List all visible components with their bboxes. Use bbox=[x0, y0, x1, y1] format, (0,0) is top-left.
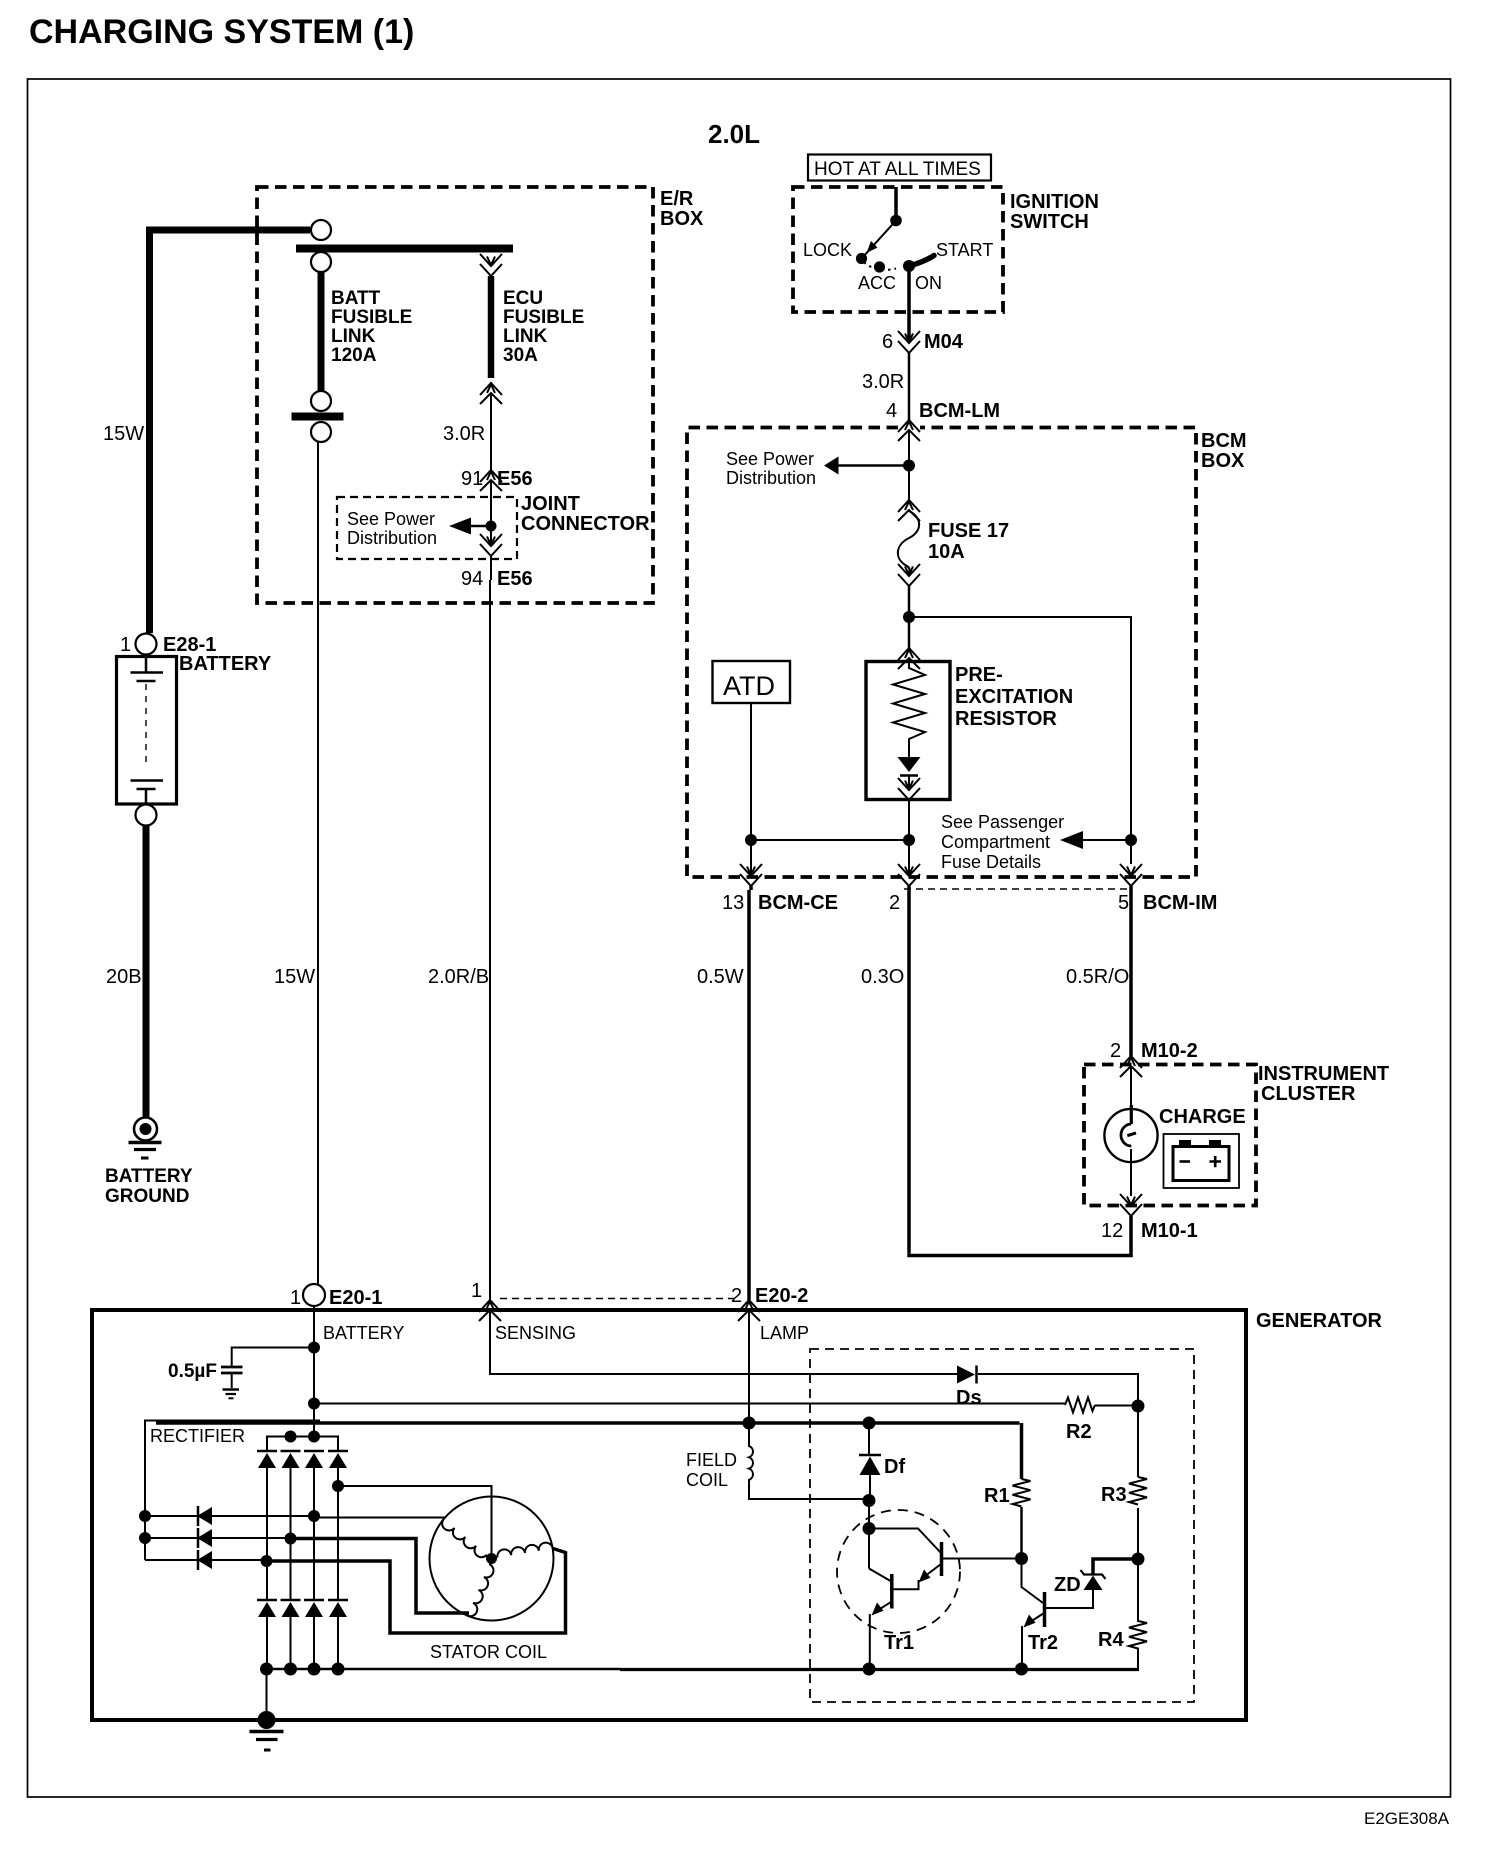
wire: node down to R3 bbox=[1137, 1406, 1139, 1477]
arrow to see power distribution bbox=[824, 457, 839, 475]
wire into charge lamp bbox=[1130, 1066, 1132, 1106]
left exciter diode row 1 bbox=[145, 1515, 314, 1517]
diode negative col2 bbox=[281, 1600, 301, 1617]
svg-text:1: 1 bbox=[290, 1287, 301, 1309]
pre-excitation resistor element bbox=[893, 658, 925, 757]
BATT link lower bus bbox=[292, 413, 344, 421]
svg-text:E56: E56 bbox=[497, 568, 533, 590]
ACC contact dot bbox=[874, 261, 885, 272]
svg-text:E20-2: E20-2 bbox=[755, 1285, 808, 1307]
wire: ZD to Tr2 collector bbox=[1046, 1590, 1093, 1608]
svg-text:15W: 15W bbox=[103, 423, 144, 445]
svg-text:E20-1: E20-1 bbox=[329, 1287, 382, 1309]
connector E56 pin 91 bbox=[480, 470, 502, 491]
svg-text:0.5W: 0.5W bbox=[697, 966, 744, 988]
stator center dot bbox=[486, 1553, 497, 1564]
svg-text:ZD: ZD bbox=[1054, 1574, 1081, 1596]
switch pivot dot bbox=[890, 215, 902, 227]
svg-text:Distribution: Distribution bbox=[726, 468, 816, 488]
battery telltale minus bbox=[1180, 1160, 1191, 1163]
svg-text:M10-1: M10-1 bbox=[1141, 1220, 1198, 1242]
instrument cluster dashed box bbox=[1084, 1065, 1256, 1206]
svg-text:2: 2 bbox=[889, 892, 900, 914]
Tr1 Q2 emitter bbox=[870, 1602, 891, 1669]
diode Ds bbox=[957, 1366, 975, 1384]
dashed connector strip E20-2 bbox=[500, 1298, 740, 1300]
switch blade arrowhead bbox=[867, 241, 878, 253]
junction dot R3/ZD/R4 bbox=[1132, 1553, 1145, 1566]
wire: ATD down to junction bbox=[750, 703, 752, 876]
connector: pre-excitation resistor entry bbox=[898, 648, 920, 669]
regulator dashed box bbox=[810, 1349, 1194, 1702]
capacitor 0.5uF bbox=[221, 1366, 243, 1369]
svg-text:M04: M04 bbox=[924, 331, 964, 353]
svg-text:BOX: BOX bbox=[660, 208, 704, 230]
svg-text:CHARGING SYSTEM (1): CHARGING SYSTEM (1) bbox=[29, 13, 414, 51]
svg-text:BATTERY: BATTERY bbox=[323, 1323, 404, 1343]
junction dot on ATD wire bbox=[745, 834, 757, 846]
svg-text:BOX: BOX bbox=[1201, 450, 1245, 472]
diode positive col2 bbox=[281, 1451, 301, 1468]
zener diode ZD bbox=[1093, 1559, 1138, 1574]
wire: BCM-IM to M10-2 (0.5R/O) bbox=[1129, 886, 1133, 1056]
generator ground dot bbox=[258, 1711, 276, 1729]
junction dot below BCM-LM bbox=[903, 460, 915, 472]
HOT AT ALL TIMES box bbox=[808, 155, 991, 181]
battery ground symbol bbox=[129, 1118, 162, 1159]
svg-text:2: 2 bbox=[731, 1285, 742, 1307]
ON contact dot bbox=[903, 260, 915, 272]
resistor R4 bbox=[1129, 1559, 1147, 1669]
wire: R2 to node bbox=[1095, 1405, 1138, 1407]
svg-text:LAMP: LAMP bbox=[760, 1323, 809, 1343]
wire: M04 to BCM-LM (3.0R) bbox=[908, 353, 911, 420]
dashed travel arc LOCK-ACC-ON bbox=[864, 262, 896, 270]
svg-text:E2GE308A: E2GE308A bbox=[1364, 1809, 1450, 1828]
bus bar terminal ring top bbox=[311, 220, 331, 240]
battery bottom terminal ring bbox=[136, 805, 157, 826]
svg-text:STATOR COIL: STATOR COIL bbox=[430, 1642, 547, 1662]
Tr1 Q1 bar bbox=[940, 1542, 944, 1576]
bus bar terminal ring below bbox=[311, 252, 331, 272]
wire: BCM-CE to LAMP (0.5W) bbox=[749, 886, 751, 1300]
junction dot row1-col3 bbox=[308, 1510, 320, 1522]
svg-text:1: 1 bbox=[471, 1280, 482, 1302]
connector BCM-LM bbox=[898, 420, 920, 441]
battery internal plates bottom bbox=[131, 781, 164, 805]
svg-text:GENERATOR: GENERATOR bbox=[1256, 1310, 1382, 1332]
svg-text:R1: R1 bbox=[984, 1485, 1010, 1507]
svg-text:BCM-LM: BCM-LM bbox=[919, 400, 1000, 422]
wire: ECU link to joint connector (3.0R) bbox=[490, 394, 492, 470]
wire: BCM-LM into BCM bbox=[908, 430, 910, 500]
battery telltale icon frame bbox=[1164, 1134, 1240, 1188]
svg-text:Df: Df bbox=[884, 1456, 905, 1478]
connector: ECU link bottom chevrons bbox=[480, 383, 502, 404]
svg-text:20B: 20B bbox=[106, 966, 142, 988]
stator phase wire to col2 (thick) bbox=[291, 1539, 470, 1614]
connector M04 bbox=[898, 331, 920, 353]
wire col4 bbox=[337, 1468, 339, 1600]
svg-text:BATTERY: BATTERY bbox=[105, 1166, 193, 1187]
svg-text:FIELD: FIELD bbox=[686, 1450, 737, 1470]
junction dot col4 neutral bbox=[332, 1480, 344, 1492]
svg-text:Ds: Ds bbox=[956, 1387, 982, 1409]
diode positive col1 bbox=[257, 1451, 277, 1468]
svg-text:BCM: BCM bbox=[1201, 430, 1247, 452]
E/R box dashed outline bbox=[257, 187, 653, 603]
svg-text:BCM-CE: BCM-CE bbox=[758, 892, 838, 914]
wire: sensing down and right (Ds feed) bbox=[490, 1310, 957, 1374]
svg-text:JOINT: JOINT bbox=[521, 493, 580, 515]
svg-text:12: 12 bbox=[1101, 1220, 1123, 1242]
junction dot col3 top bbox=[308, 1431, 320, 1443]
wire: LAMP down to field rail bbox=[748, 1310, 750, 1423]
svg-text:See Passenger: See Passenger bbox=[941, 812, 1064, 832]
START contact (thick stub) bbox=[909, 256, 934, 267]
wire col2 bbox=[290, 1468, 292, 1600]
fuse 17 clip bottom bbox=[898, 564, 920, 586]
junction dot battery rail bbox=[308, 1398, 320, 1410]
svg-text:FUSIBLE: FUSIBLE bbox=[331, 307, 412, 328]
junction dot field rail / Df bbox=[863, 1494, 876, 1507]
wire: BCM 2 down (0.3O) bbox=[907, 886, 911, 1254]
connector E20-1 (ring) bbox=[303, 1284, 325, 1306]
connector E28-1 (ring) bbox=[136, 634, 157, 655]
Tr1 Q2 bar bbox=[890, 1574, 894, 1609]
wire: M10-1 loop back to 0.3O wire bbox=[907, 1216, 1133, 1256]
wire: rail to generator ground bbox=[266, 1669, 268, 1720]
connector BCM pin 2 bbox=[898, 864, 920, 886]
switch feed stub bbox=[894, 187, 898, 220]
svg-text:3.0R: 3.0R bbox=[443, 423, 485, 445]
bottom rail of generator bbox=[267, 1668, 621, 1671]
wire col3 bbox=[313, 1468, 315, 1600]
connector: pre-excitation resistor exit bbox=[898, 778, 920, 800]
svg-text:ECU: ECU bbox=[503, 288, 543, 309]
svg-text:BATTERY: BATTERY bbox=[179, 653, 272, 675]
diode positive col4 bbox=[328, 1451, 348, 1468]
wire: E20-1 into generator bbox=[313, 1306, 315, 1437]
Tr1 Q1 base wire to node bbox=[943, 1558, 1022, 1560]
connector M10-1 bbox=[1120, 1194, 1142, 1216]
svg-text:BATT: BATT bbox=[331, 288, 381, 309]
battery symbol box bbox=[117, 657, 177, 805]
svg-text:0.5µF: 0.5µF bbox=[168, 1361, 217, 1382]
svg-text:R3: R3 bbox=[1101, 1484, 1127, 1506]
junction dot Tr1 emitter on rail bbox=[863, 1663, 876, 1676]
BATT link lower ring 2 bbox=[311, 422, 331, 442]
svg-text:INSTRUMENT: INSTRUMENT bbox=[1258, 1063, 1389, 1085]
svg-text:2: 2 bbox=[1110, 1040, 1121, 1062]
junction dot on BCM-IM wire bbox=[1125, 834, 1137, 846]
svg-text:RECTIFIER: RECTIFIER bbox=[150, 1426, 245, 1446]
Tr1 Q1 collector link bbox=[869, 1529, 941, 1554]
junction dot below resistor bbox=[903, 834, 915, 846]
junction dot Tr2 emitter on rail bbox=[1015, 1663, 1028, 1676]
svg-text:LINK: LINK bbox=[503, 326, 548, 347]
svg-text:2.0R/B: 2.0R/B bbox=[428, 966, 489, 988]
connector BCM-CE bbox=[740, 864, 762, 886]
stator phase coil upper-left bbox=[439, 1519, 487, 1560]
svg-text:COIL: COIL bbox=[686, 1470, 728, 1490]
battery internal dashed electrolyte line bbox=[145, 684, 147, 768]
diode negative col1 bbox=[257, 1600, 277, 1617]
svg-text:ON: ON bbox=[915, 273, 942, 293]
svg-text:CHARGE: CHARGE bbox=[1159, 1106, 1246, 1128]
svg-text:See Power: See Power bbox=[347, 509, 435, 529]
capacitor ground bbox=[231, 1374, 233, 1388]
junction dot R2/Ds/R3 bbox=[1132, 1400, 1145, 1413]
junction dot row3-col1 bbox=[261, 1555, 273, 1567]
wire: ATD junction to resistor junction bbox=[751, 839, 909, 841]
svg-text:See Power: See Power bbox=[726, 449, 814, 469]
svg-text:FUSIBLE: FUSIBLE bbox=[503, 307, 584, 328]
svg-text:6: 6 bbox=[882, 331, 893, 353]
left exciter diode row 3 bbox=[145, 1559, 266, 1561]
ignition switch dashed box bbox=[793, 187, 1003, 312]
fuse 17 element bbox=[898, 511, 919, 574]
diode positive col3 bbox=[304, 1451, 324, 1468]
wire: R1 to base node bbox=[1020, 1507, 1023, 1559]
svg-text:RESISTOR: RESISTOR bbox=[955, 708, 1057, 730]
generator box bbox=[92, 1310, 1246, 1720]
diode Df bbox=[863, 1417, 876, 1430]
junction dot below fuse bbox=[903, 611, 915, 623]
Tr1 Q2 collector link bbox=[869, 1569, 891, 1582]
svg-text:5: 5 bbox=[1118, 892, 1129, 914]
arrow to see passenger note bbox=[1060, 831, 1083, 849]
svg-text:2.0L: 2.0L bbox=[708, 119, 760, 149]
wire: lamp to M10-1 bbox=[1130, 1149, 1132, 1196]
svg-text:M10-2: M10-2 bbox=[1141, 1040, 1198, 1062]
Tr1 Q1 emitter bbox=[893, 1564, 941, 1589]
wire: ON contact down to M04 bbox=[907, 266, 911, 343]
wire: battery rail to R2 (generator B+) bbox=[314, 1403, 1065, 1405]
svg-text:CONNECTOR: CONNECTOR bbox=[521, 513, 650, 535]
field coil element bbox=[749, 1423, 869, 1499]
wire: joint connector to SENSING (2.0R/B) bbox=[490, 556, 491, 1300]
svg-text:ATD: ATD bbox=[723, 671, 775, 701]
wire inside joint connector bbox=[490, 480, 492, 546]
connector: ECU link top chevrons bbox=[480, 254, 502, 276]
stator phase wire to col1 (thick) bbox=[267, 1549, 566, 1634]
connector M10-2 bbox=[1120, 1056, 1142, 1077]
svg-text:Compartment: Compartment bbox=[941, 832, 1050, 852]
svg-text:EXCITATION: EXCITATION bbox=[955, 686, 1073, 708]
BCM box dashed outline bbox=[687, 428, 1196, 878]
stator circle bbox=[430, 1497, 554, 1621]
svg-text:ACC: ACC bbox=[858, 273, 896, 293]
svg-text:GROUND: GROUND bbox=[105, 1186, 189, 1207]
fuse 17 clip top bbox=[898, 500, 920, 521]
connector: SENSING entry bbox=[479, 1300, 501, 1321]
svg-text:SENSING: SENSING bbox=[495, 1323, 576, 1343]
svg-text:Tr1: Tr1 bbox=[884, 1632, 914, 1654]
wire: Df node down bbox=[868, 1501, 870, 1569]
resistor R3 bbox=[1129, 1477, 1147, 1504]
junction dot col2 top bbox=[285, 1431, 297, 1443]
charge lamp bulb bbox=[1104, 1109, 1157, 1162]
svg-text:E/R: E/R bbox=[660, 188, 694, 210]
junction dot capacitor tap bbox=[308, 1342, 320, 1354]
stator phase coil lower-left bbox=[468, 1564, 496, 1618]
capacitor branch wire bbox=[232, 1348, 314, 1367]
svg-text:PRE-: PRE- bbox=[955, 664, 1003, 686]
svg-text:Distribution: Distribution bbox=[347, 528, 437, 548]
top diode bus bbox=[267, 1437, 338, 1452]
stator phase wire to col3 bbox=[314, 1517, 445, 1519]
fusible link ECU 30A (thick element) bbox=[488, 276, 495, 378]
charge lamp filament bbox=[1121, 1124, 1131, 1146]
connector E56 pin 94 bbox=[480, 534, 502, 556]
junction dot Tr1 collector bbox=[863, 1522, 876, 1535]
wire: BATT link to E20-1 (15W) bbox=[317, 442, 319, 1284]
svg-text:R4: R4 bbox=[1098, 1629, 1124, 1651]
svg-text:3.0R: 3.0R bbox=[862, 371, 904, 393]
stator phase coil right bbox=[496, 1542, 552, 1558]
junction dot in joint connector bbox=[486, 521, 497, 532]
svg-text:10A: 10A bbox=[928, 541, 965, 563]
junction dot R1/Tr1 base/Tr2 base bbox=[1015, 1552, 1028, 1565]
svg-text:30A: 30A bbox=[503, 345, 538, 366]
battery telltale body bbox=[1173, 1147, 1229, 1181]
svg-text:LOCK: LOCK bbox=[803, 240, 852, 260]
junction dots on bottom rail bbox=[260, 1663, 273, 1676]
ATD box bbox=[713, 661, 791, 703]
svg-text:R2: R2 bbox=[1066, 1421, 1092, 1443]
svg-text:1: 1 bbox=[120, 634, 131, 656]
svg-text:HOT AT ALL TIMES: HOT AT ALL TIMES bbox=[814, 159, 981, 180]
svg-text:Tr2: Tr2 bbox=[1028, 1632, 1058, 1654]
svg-text:IGNITION: IGNITION bbox=[1010, 191, 1099, 213]
junction dot field top bbox=[743, 1417, 756, 1430]
wire: resistor exit to junction bbox=[908, 800, 910, 876]
fusible link BATT 120A (thick element) bbox=[318, 272, 325, 391]
Tr2 emitter bbox=[1022, 1613, 1044, 1669]
rectifier outline bbox=[145, 1421, 320, 1561]
thick output bus wire bbox=[156, 1421, 1020, 1425]
svg-text:FUSE 17: FUSE 17 bbox=[928, 520, 1009, 542]
svg-text:120A: 120A bbox=[331, 345, 377, 366]
diode negative col3 bbox=[304, 1600, 324, 1617]
left exciter diode row 2 bbox=[145, 1537, 291, 1539]
junction dot left row1 bbox=[139, 1510, 151, 1522]
pre-excitation diode bbox=[898, 757, 921, 772]
resistor R1 bbox=[1013, 1479, 1031, 1506]
wires below negative diodes bbox=[267, 1617, 338, 1669]
LOCK contact dot bbox=[856, 253, 867, 264]
svg-text:Fuse Details: Fuse Details bbox=[941, 852, 1041, 872]
diode negative col4 bbox=[328, 1600, 348, 1617]
resistor R2 bbox=[1065, 1398, 1095, 1413]
svg-text:15W: 15W bbox=[274, 966, 315, 988]
wire: battery negative to ground (20B) bbox=[143, 826, 150, 1118]
battery telltale terminals bbox=[1179, 1140, 1221, 1146]
junction dot left row2 bbox=[139, 1532, 151, 1544]
junction dot row2-col2 bbox=[285, 1533, 297, 1545]
wire: fuse to junction bbox=[908, 586, 911, 648]
Tr2 bar bbox=[1043, 1592, 1047, 1627]
arrow to see power distribution bbox=[449, 518, 471, 535]
switch blade to LOCK bbox=[862, 221, 896, 259]
svg-text:4: 4 bbox=[886, 400, 897, 422]
joint connector dashed box bbox=[337, 497, 517, 559]
pre-excitation resistor box bbox=[866, 662, 950, 800]
svg-text:LINK: LINK bbox=[331, 326, 376, 347]
svg-text:BCM-IM: BCM-IM bbox=[1143, 892, 1217, 914]
battery telltale plus bbox=[1210, 1156, 1222, 1167]
BATT link lower ring 1 bbox=[311, 391, 331, 411]
svg-text:E56: E56 bbox=[497, 468, 533, 490]
wire: R3 to lower node bbox=[1137, 1508, 1139, 1559]
svg-text:91: 91 bbox=[461, 468, 483, 490]
wire: bus corner down to R1 bbox=[1020, 1423, 1024, 1479]
wire: junction right and down to BCM-IM bbox=[909, 617, 1131, 864]
battery internal plates top bbox=[131, 657, 164, 681]
svg-text:CLUSTER: CLUSTER bbox=[1261, 1083, 1356, 1105]
bus bar bbox=[296, 245, 513, 253]
wire col1 bbox=[266, 1468, 268, 1600]
svg-text:0.3O: 0.3O bbox=[861, 966, 904, 988]
svg-text:START: START bbox=[936, 240, 993, 260]
connector: LAMP entry E20-2 bbox=[738, 1300, 760, 1321]
connector BCM-IM bbox=[1120, 864, 1142, 886]
svg-text:94: 94 bbox=[461, 568, 483, 590]
stator neutral wire to col4 bbox=[338, 1486, 492, 1559]
wire: thick feeder from bus bar to battery (15W) bbox=[150, 230, 311, 633]
svg-text:0.5R/O: 0.5R/O bbox=[1066, 966, 1129, 988]
dashed connector strip under BCM bbox=[904, 888, 1128, 890]
wire: Ds to R3 node bbox=[978, 1374, 1138, 1406]
svg-text:13: 13 bbox=[722, 892, 744, 914]
transistor Tr1 darlington dashed circle bbox=[837, 1510, 960, 1633]
svg-text:SWITCH: SWITCH bbox=[1010, 211, 1089, 233]
generator ground symbol bbox=[250, 1730, 284, 1734]
transistor Tr2 base path bbox=[1022, 1559, 1044, 1604]
